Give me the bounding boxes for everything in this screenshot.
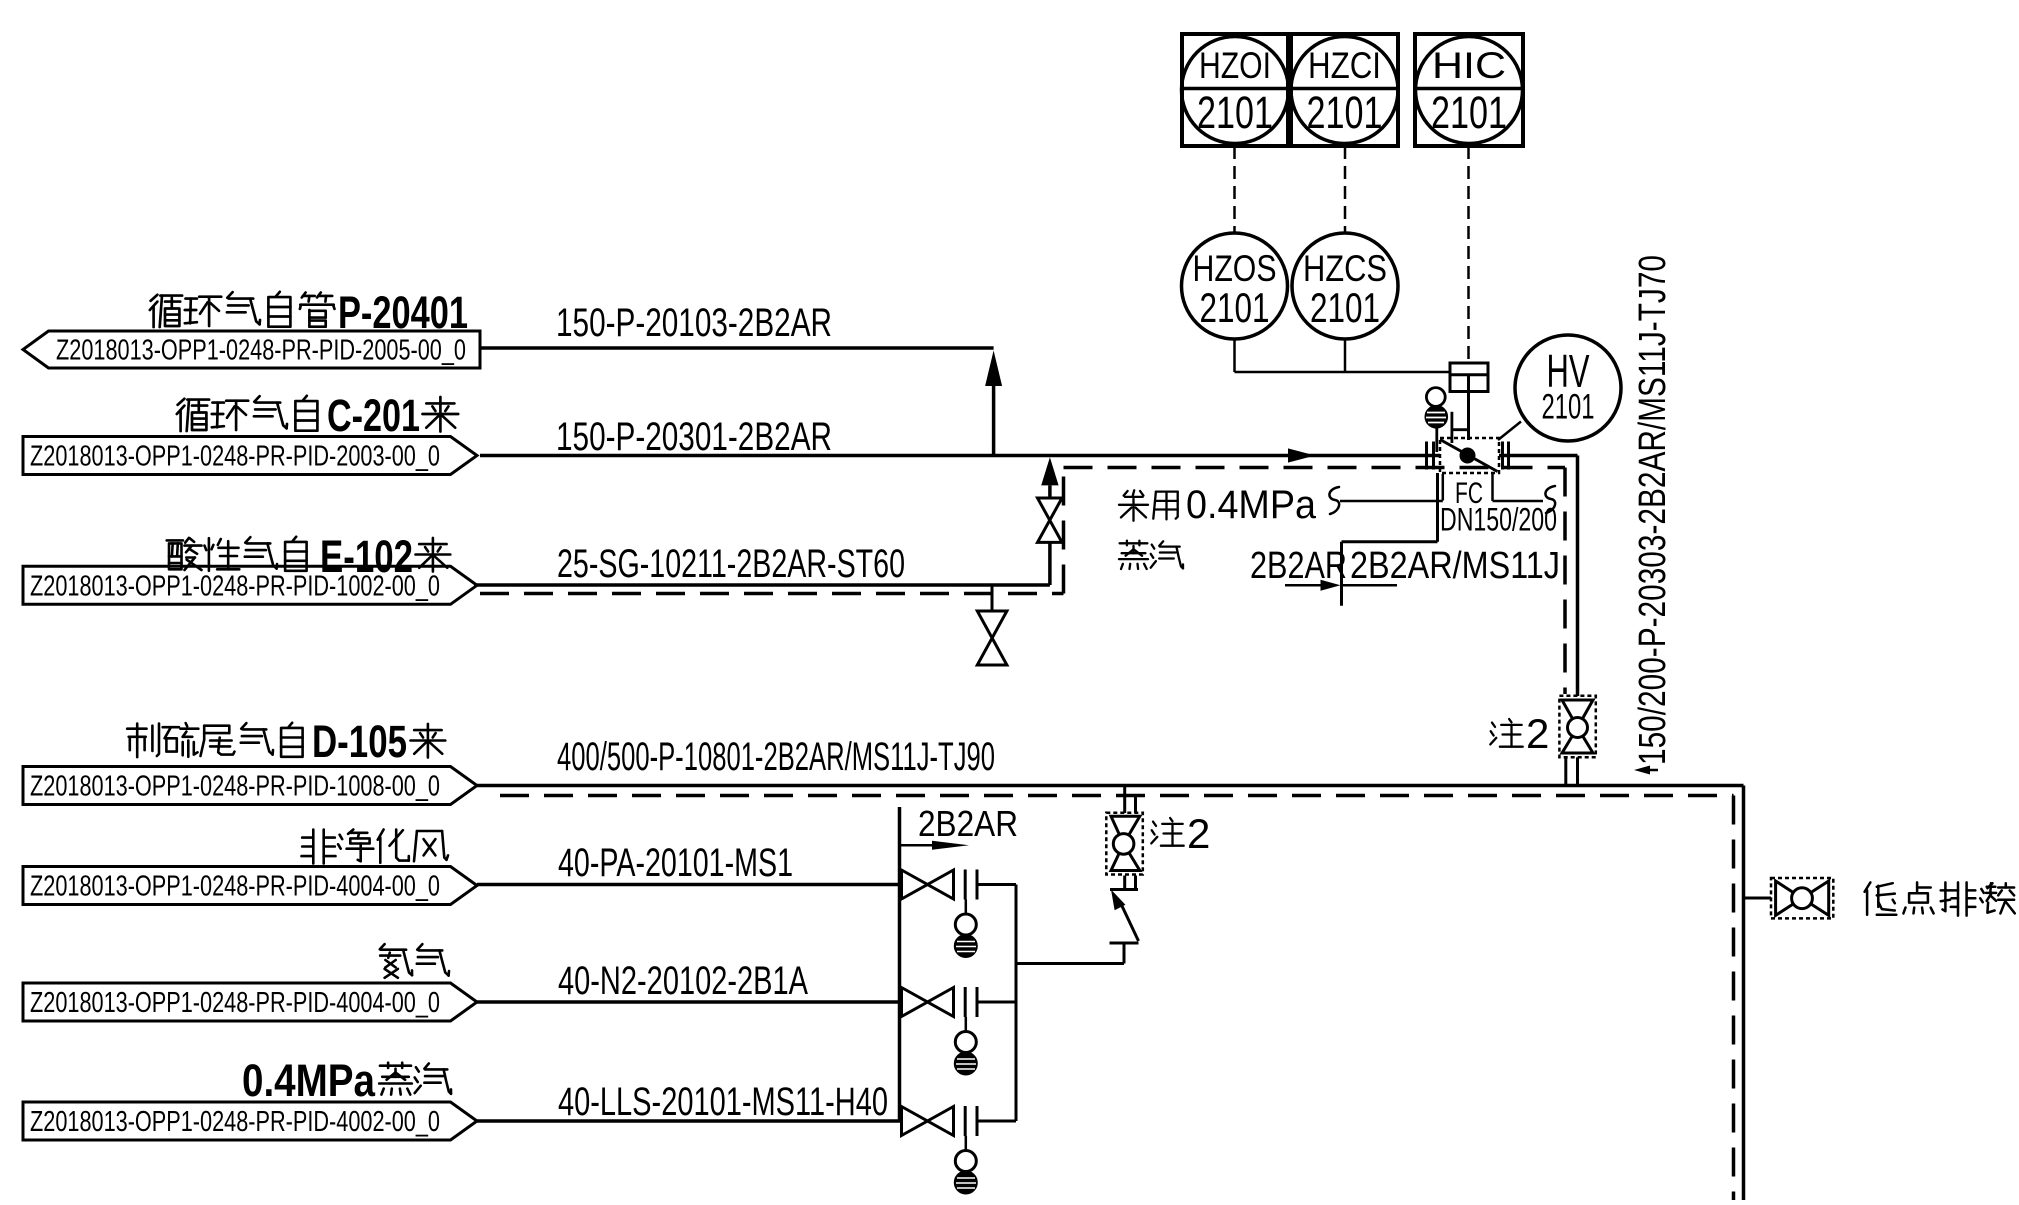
pipe 25-SG-10211 (line 3) bbox=[474, 583, 1050, 587]
svg-text:400/500-P-10801-2B2AR/MS11J-TJ: 400/500-P-10801-2B2AR/MS11J-TJ90 bbox=[557, 735, 995, 779]
pipe to collector bbox=[977, 1120, 1016, 1123]
collector vertical bbox=[1015, 885, 1018, 1122]
note2 valve on utility injection (jacketed globe) bbox=[1106, 786, 1143, 890]
block valve bbox=[902, 988, 954, 1017]
hose / jumper symbol with arrow bbox=[1110, 890, 1139, 944]
removable spool flanges bbox=[965, 987, 977, 1017]
off-page connector PID-4004 (air) bbox=[23, 867, 477, 905]
svg-text:2101: 2101 bbox=[1200, 284, 1270, 331]
note2 valve on right riser (jacketed globe) bbox=[1559, 696, 1595, 758]
pipe after valve to right riser bbox=[1499, 456, 1578, 697]
steam tracing dashed along line 3 bbox=[480, 468, 1064, 594]
svg-text:2101: 2101 bbox=[1431, 87, 1507, 138]
pipe 40-LLS-20101 (line 7) bbox=[477, 1119, 902, 1123]
label FC (fail closed) bbox=[1455, 477, 1483, 510]
steam tracing dashed along line 2 bbox=[1064, 468, 1566, 695]
vertical pipe label 150/200-P-20303-2B2AR/MS11J-TJ70 bbox=[1632, 255, 1674, 765]
svg-text:0.4MPa: 0.4MPa bbox=[242, 1055, 376, 1106]
valve flanges left bbox=[1427, 442, 1434, 470]
solenoid indicator circles beside stem bbox=[1426, 388, 1469, 452]
off-page connector to PID-2005 (left arrow) bbox=[23, 331, 480, 368]
svg-text:25-SG-10211-2B2AR-ST60: 25-SG-10211-2B2AR-ST60 bbox=[557, 542, 905, 586]
pipe 40-N2-20102 (line 6) bbox=[477, 1000, 902, 1004]
label 25-SG-10211-2B2AR-ST60 bbox=[557, 542, 905, 586]
flow arrow on manifold branch bbox=[900, 841, 970, 850]
instrument bubble HV-2101 bbox=[1498, 335, 1621, 441]
instrument HZOI-2101 (shared display/logic box) bbox=[1182, 34, 1289, 146]
drain stub with valve below line 3 bbox=[977, 585, 1007, 665]
pipe 150-P-20301 (line 2) bbox=[480, 454, 1440, 458]
stubs below note2 valve to line 4 bbox=[1566, 757, 1578, 785]
svg-text:HZOS: HZOS bbox=[1193, 248, 1277, 289]
label low point drain bbox=[1865, 882, 2015, 915]
svg-text:HIC: HIC bbox=[1432, 45, 1506, 86]
removable spool flanges bbox=[965, 870, 977, 900]
svg-text:HZCS: HZCS bbox=[1303, 248, 1387, 289]
actuator box of HV-2101 bbox=[1450, 363, 1488, 392]
collector tap to hose bbox=[1016, 943, 1124, 964]
svg-text:40-PA-20101-MS1: 40-PA-20101-MS1 bbox=[558, 841, 793, 885]
steam jacket connection left of valve bbox=[1342, 473, 1438, 606]
label note2 (right) bbox=[1490, 710, 1549, 757]
signal wire HIC to HV actuator (dashed) bbox=[1467, 146, 1470, 363]
control valve HV-2101 body bbox=[1440, 438, 1499, 473]
instrument HIC-2101 (shared display/logic box) bbox=[1415, 34, 1523, 146]
svg-text:2: 2 bbox=[1526, 710, 1549, 757]
off-page connector from PID-1008 bbox=[23, 767, 477, 805]
title: sulfur tail gas from D-105 bbox=[127, 716, 445, 767]
valve on sour gas riser bbox=[1038, 498, 1063, 542]
svg-text:0.4MPa: 0.4MPa bbox=[1186, 483, 1317, 527]
svg-text:150/200-P-20303-2B2AR/MS11J-TJ: 150/200-P-20303-2B2AR/MS11J-TJ70 bbox=[1632, 255, 1674, 765]
label 40-LLS-20101-MS11-H40 bbox=[558, 1080, 888, 1124]
spec break symbol bbox=[1285, 580, 1397, 591]
steam supply left with squiggle bbox=[1329, 474, 1442, 514]
block valve bbox=[902, 1107, 954, 1136]
svg-text:150-P-20103-2B2AR: 150-P-20103-2B2AR bbox=[556, 301, 832, 345]
svg-text:Z2018013-OPP1-0248-PR-PID-2003: Z2018013-OPP1-0248-PR-PID-2003-00_0 bbox=[30, 441, 440, 473]
label note2 (middle) bbox=[1151, 810, 1210, 857]
svg-text:2101: 2101 bbox=[1542, 388, 1595, 427]
svg-text:Z2018013-OPP1-0248-PR-PID-4004: Z2018013-OPP1-0248-PR-PID-4004-00_0 bbox=[30, 987, 440, 1019]
label 150-P-20301-2B2AR bbox=[556, 415, 832, 459]
pipe to collector bbox=[977, 1001, 1016, 1004]
svg-text:Z2018013-OPP1-0248-PR-PID-4004: Z2018013-OPP1-0248-PR-PID-4004-00_0 bbox=[30, 871, 440, 903]
spec labels 2B2AR | 2B2AR/MS11J bbox=[1250, 545, 1560, 587]
svg-text:2B2AR/MS11J: 2B2AR/MS11J bbox=[1350, 545, 1560, 587]
pipe 150-P-20103 (line 1) bbox=[480, 346, 994, 350]
off-page connector from PID-1002 bbox=[23, 566, 477, 604]
label 40-PA-20101-MS1 bbox=[558, 841, 793, 885]
signal wire HZOI to HZOS (dashed) bbox=[1233, 146, 1236, 233]
pipe to collector bbox=[977, 883, 1016, 886]
title: recycle gas from C-201 bbox=[177, 390, 458, 441]
svg-text:Z2018013-OPP1-0248-PR-PID-1008: Z2018013-OPP1-0248-PR-PID-1008-00_0 bbox=[30, 771, 440, 803]
branch riser from line2 to line1 with up arrow bbox=[985, 351, 1002, 456]
instrument HZCI-2101 (shared display/logic box) bbox=[1291, 34, 1398, 146]
utility manifold vertical header bbox=[898, 807, 902, 1121]
svg-text:2101: 2101 bbox=[1307, 87, 1383, 138]
svg-text:2101: 2101 bbox=[1197, 87, 1273, 138]
sour gas riser to line 2 bbox=[1041, 457, 1058, 585]
label DN150/200 reducer bbox=[1440, 502, 1557, 538]
label 150-P-20103-2B2AR bbox=[556, 301, 832, 345]
off-page connector PID-4002 (steam) bbox=[23, 1102, 477, 1140]
svg-text:D-105: D-105 bbox=[312, 716, 407, 767]
label 400/500-P-10801-2B2AR/MS11J-TJ90 bbox=[557, 735, 995, 779]
small left arrow under vertical label bbox=[1634, 766, 1658, 775]
svg-text:HZCI: HZCI bbox=[1308, 45, 1381, 86]
hose connection circles bbox=[955, 1136, 976, 1193]
svg-text:DN150/200: DN150/200 bbox=[1440, 502, 1557, 538]
svg-text:Z2018013-OPP1-0248-PR-PID-2005: Z2018013-OPP1-0248-PR-PID-2005-00_0 bbox=[56, 335, 466, 367]
svg-text:HZOI: HZOI bbox=[1199, 45, 1271, 86]
steam tracing dashed along line 4 bbox=[500, 796, 1734, 1201]
svg-text:150-P-20301-2B2AR: 150-P-20301-2B2AR bbox=[556, 415, 832, 459]
low point drain valve bbox=[1744, 878, 1834, 918]
pipe 400/500-P-10801 (line 4) bbox=[477, 786, 1744, 1201]
wire HZOS/HZCS to valve actuator bbox=[1235, 339, 1451, 372]
hose connection circles bbox=[955, 900, 976, 957]
valve flanges right bbox=[1503, 442, 1509, 470]
svg-text:40-N2-20102-2B1A: 40-N2-20102-2B1A bbox=[558, 959, 808, 1003]
svg-text:C-201: C-201 bbox=[327, 390, 420, 441]
flow arrow on line 2 bbox=[1288, 448, 1315, 462]
off-page connector PID-4004 (N2) bbox=[23, 983, 477, 1021]
title: 0.4MPa steam bbox=[242, 1055, 451, 1106]
title: nitrogen bbox=[380, 944, 449, 978]
removable spool flanges bbox=[965, 1106, 977, 1136]
svg-text:Z2018013-OPP1-0248-PR-PID-4002: Z2018013-OPP1-0248-PR-PID-4002-00_0 bbox=[30, 1106, 440, 1138]
svg-text:2: 2 bbox=[1187, 810, 1210, 857]
title: non-purified air bbox=[302, 830, 449, 864]
svg-text:2101: 2101 bbox=[1310, 284, 1380, 331]
svg-text:2B2AR: 2B2AR bbox=[1250, 545, 1347, 587]
label 40-N2-20102-2B1A bbox=[558, 959, 808, 1003]
steam jacket connection right of valve bbox=[1493, 474, 1556, 513]
block valve bbox=[902, 870, 954, 899]
svg-text:Z2018013-OPP1-0248-PR-PID-1002: Z2018013-OPP1-0248-PR-PID-1002-00_0 bbox=[30, 570, 440, 602]
off-page connector from PID-2003 bbox=[23, 437, 477, 475]
label 2B2AR on manifold bbox=[918, 803, 1018, 844]
svg-text:40-LLS-20101-MS11-H40: 40-LLS-20101-MS11-H40 bbox=[558, 1080, 888, 1124]
instrument HZOS-2101 (field switch) bbox=[1182, 233, 1288, 339]
pipe 40-PA-20101 (line 5) bbox=[477, 883, 902, 887]
svg-text:2B2AR: 2B2AR bbox=[918, 803, 1018, 844]
hose connection circles bbox=[955, 1017, 976, 1074]
title: sour gas from E-102 bbox=[167, 531, 451, 582]
steam note text 0.4MPa steam bbox=[1119, 483, 1317, 569]
signal wire HZCI to HZCS (dashed) bbox=[1344, 146, 1347, 233]
title: recycle gas to pipe P-20401 bbox=[150, 287, 468, 338]
instrument HZCS-2101 (field switch) bbox=[1292, 233, 1398, 339]
valve stem bbox=[1467, 375, 1470, 440]
